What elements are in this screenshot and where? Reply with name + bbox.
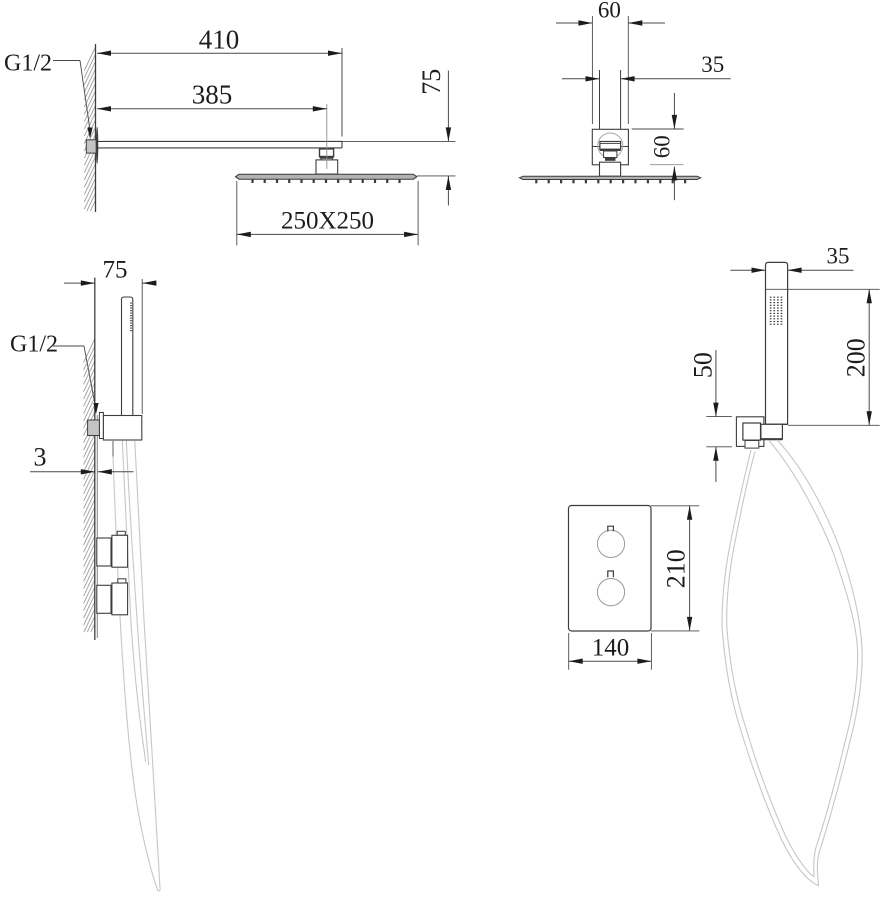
svg-text:50: 50 [689, 352, 718, 378]
dimension 200 [766, 289, 880, 425]
supply tube (front view) [600, 70, 621, 146]
hand shower wand (side) [122, 297, 133, 416]
wall bracket (side) [99, 413, 141, 441]
dimension 75 (bracket offset) [64, 257, 156, 415]
wall bracket (front) [736, 417, 764, 447]
shower head plate (front view) [519, 176, 700, 179]
bracket elbow (front) [743, 423, 761, 448]
ball joint [598, 133, 623, 158]
svg-text:75: 75 [417, 69, 446, 95]
svg-text:210: 210 [662, 549, 691, 588]
dimension 3 (wall offset) [30, 443, 134, 475]
svg-text:35: 35 [701, 52, 724, 77]
svg-text:60: 60 [598, 0, 621, 23]
svg-text:60: 60 [650, 135, 675, 158]
hand shower hose (front view) [722, 440, 862, 886]
knob 1 [597, 526, 624, 557]
svg-text:385: 385 [192, 80, 233, 110]
head mount block (side) [316, 160, 338, 174]
dimension 50 [689, 350, 732, 482]
spray nozzles (front view) [535, 180, 686, 184]
label G1/2 (middle-left) [10, 332, 58, 358]
svg-text:140: 140 [592, 635, 630, 662]
dimension 250X250 [237, 181, 418, 245]
svg-text:3: 3 [34, 443, 47, 472]
wand bottom nut (front) [761, 424, 788, 439]
arm connector nut [320, 149, 334, 164]
wand spray dots (front) [770, 297, 783, 325]
shower arm [96, 141, 342, 148]
svg-text:250X250: 250X250 [281, 208, 374, 235]
svg-text:200: 200 [842, 338, 871, 377]
wall flange block [86, 140, 96, 153]
dimension 140 [569, 633, 652, 670]
escutcheon edge-on [96, 127, 98, 164]
svg-text:G1/2: G1/2 [10, 332, 58, 358]
centreline through connector [326, 104, 328, 169]
leader G1/2 to wall flange [53, 61, 93, 139]
bracket wall anchor [88, 420, 100, 436]
svg-text:35: 35 [827, 244, 850, 269]
dimension 60 (width) [556, 0, 665, 124]
mixer valve 1 (side) [97, 531, 128, 567]
head mount block (front) [600, 162, 621, 176]
svg-text:75: 75 [103, 257, 128, 284]
shower head plate (side view) [236, 174, 417, 179]
dimension 385 [97, 80, 327, 112]
escutcheon plate (front) [592, 129, 628, 165]
svg-text:410: 410 [199, 25, 240, 55]
leader G1/2 to bracket [53, 346, 99, 414]
hose outlet stub [112, 440, 114, 457]
dimension 410 [97, 25, 342, 137]
spray nozzles (side view) [251, 179, 400, 183]
wall (side view, top-left) [84, 44, 95, 212]
mixer valve 2 (side) [97, 579, 128, 615]
dimension 210 [651, 506, 700, 631]
svg-text:G1/2: G1/2 [4, 51, 52, 77]
dimension 35 (wand width) [730, 244, 853, 273]
dimension 60 (height) [632, 93, 684, 200]
wall (side view, middle-left) [84, 278, 98, 640]
control panel plate [569, 506, 652, 632]
knob 2 [597, 571, 624, 606]
label G1/2 (top-left) [4, 51, 52, 77]
ball joint nut [600, 142, 621, 161]
dimension 75 (arm to head) [342, 69, 456, 206]
hand shower wand (front) [766, 262, 788, 424]
hand shower hose (side view) [113, 441, 160, 892]
wand spray dots (side) [130, 303, 132, 332]
dimension 35 (tube width) [562, 52, 731, 82]
